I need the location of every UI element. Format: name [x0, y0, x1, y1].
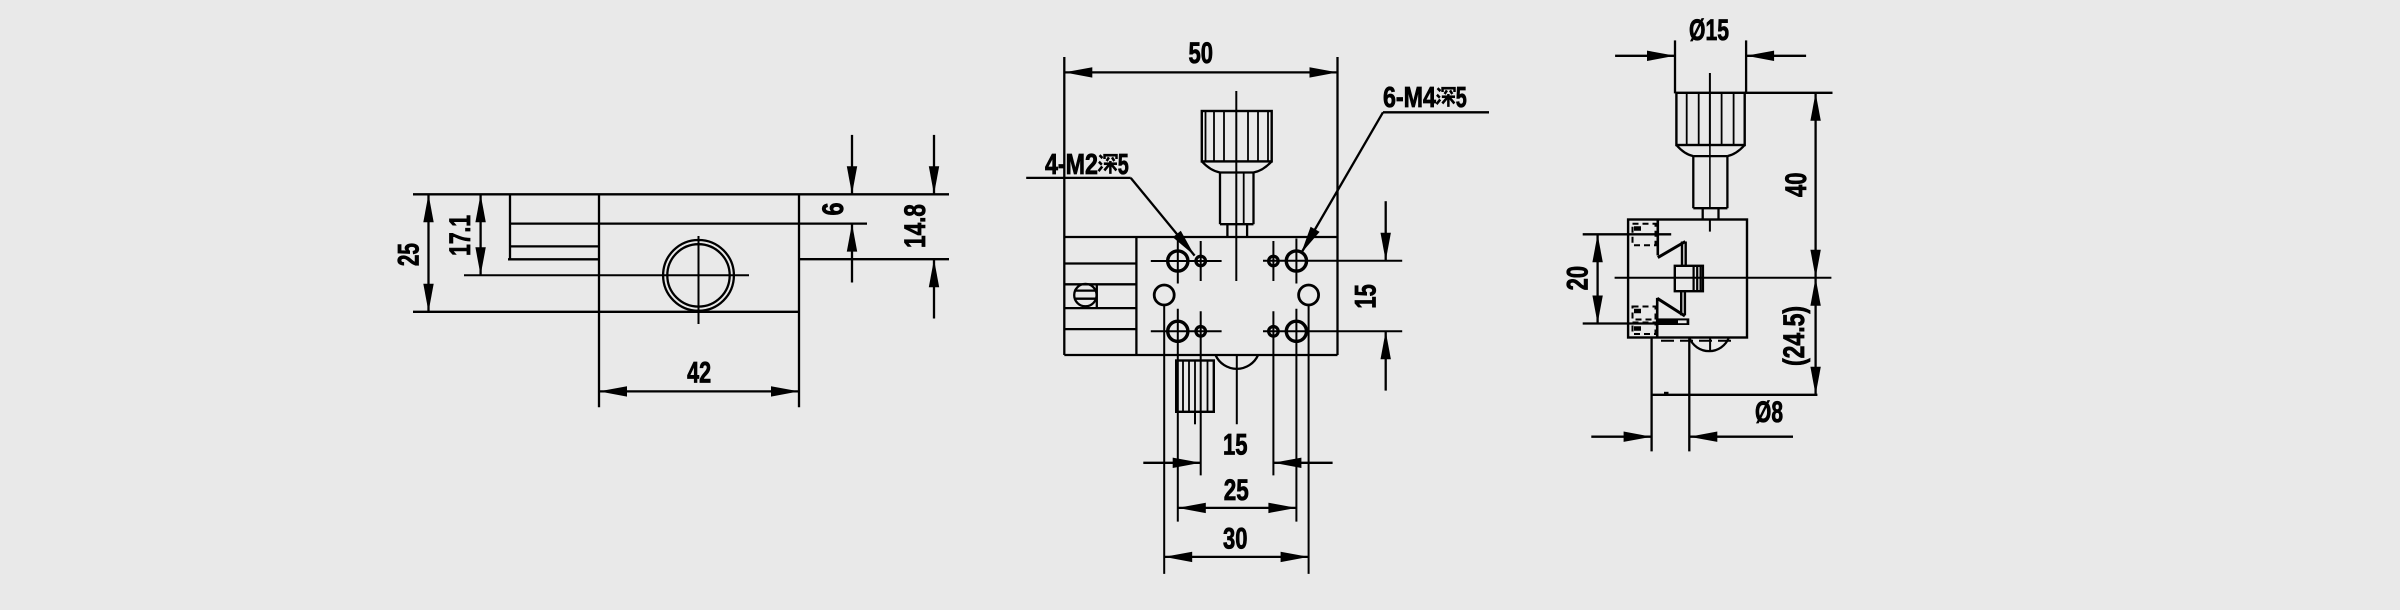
shaft diam8 right edge: [1688, 338, 1690, 452]
slot upper line (extends right as 6 extension): [510, 222, 867, 224]
screw housing vertical: [1096, 284, 1098, 308]
knob lower fillet left: [1202, 161, 1220, 172]
screw head circle: [1074, 284, 1096, 306]
dimension 42 left arrow: [599, 386, 627, 396]
stem bottom edge: [1220, 223, 1254, 225]
M4 hole top-left: [1168, 251, 1188, 271]
extension vertical 15-left: [1200, 311, 1202, 475]
knob circle horizontal centerline / 17.1 extension: [464, 274, 749, 276]
dashed hidden screw box bottom-left2: [1633, 323, 1656, 335]
dimension 15 right top arrow (outside, pointing down): [1385, 201, 1387, 261]
M2 hole top-right: [1269, 256, 1279, 266]
lower shaft right: [1717, 208, 1719, 219]
side knob centerline: [1194, 412, 1196, 425]
stem left edge: [1219, 173, 1221, 225]
svg-text:6-M4: 6-M4: [1383, 82, 1436, 114]
dimension 6 lower arrow (outside, pointing up): [851, 224, 853, 283]
label 4-M2 underline: [1026, 177, 1131, 179]
bottom arc under body: [1689, 338, 1729, 352]
upper spring diagonal: [1658, 242, 1686, 258]
dimension 20 top extension: [1583, 233, 1672, 235]
slot box left edge: [509, 194, 511, 259]
nut block inner verticals: [1692, 266, 1694, 291]
dimension diam8 right arrow (outside): [1689, 436, 1793, 438]
svg-text:50: 50: [1188, 37, 1213, 70]
lower spring vertical: [1656, 298, 1659, 338]
stem bottom edge: [1693, 207, 1727, 209]
left box line 3: [1064, 307, 1136, 309]
dimension 14.8 upper arrow (outside, pointing down): [933, 135, 935, 194]
label 4-M2 leader arrowhead: [1173, 231, 1195, 256]
bottom arc centerline: [1236, 355, 1238, 424]
hole row line top-right + 15 extension: [1263, 260, 1402, 262]
body step vertical left: [598, 194, 600, 407]
lower spring diagonal: [1657, 298, 1685, 316]
stem right edge: [1726, 156, 1728, 208]
hole row line bottom-left: [1151, 330, 1222, 332]
dimension 25 line: [427, 194, 429, 311]
stem top edge: [1220, 171, 1254, 173]
stem top edge: [1693, 155, 1727, 157]
lower shaft right: [1246, 224, 1248, 237]
dimension 30 bottom line: [1164, 556, 1308, 558]
body rect: [1628, 220, 1747, 338]
dimension 50 line: [1064, 71, 1337, 73]
side knob knurls: [1182, 361, 1184, 412]
dimension diam15 right arrow (outside): [1746, 55, 1806, 57]
svg-text:15: 15: [1350, 284, 1383, 309]
label 6-M4 shen glyph: [1437, 88, 1456, 107]
svg-text:4-M2: 4-M2: [1045, 149, 1098, 181]
knob knurl lines: [1686, 93, 1688, 145]
dimension diam8 left arrow (outside): [1591, 436, 1651, 438]
dashed hidden screw box top-left: [1633, 224, 1656, 246]
svg-text:30: 30: [1223, 522, 1248, 555]
M2 hole bottom-right: [1269, 327, 1279, 337]
svg-text:14.8: 14.8: [899, 204, 932, 248]
body bottom outline: [413, 311, 799, 313]
body top edge: [1064, 236, 1337, 238]
svg-text:20: 20: [1562, 266, 1595, 291]
left box line 4: [1064, 328, 1136, 330]
left box line 1: [1064, 262, 1136, 264]
dimension 14.8 lower arrow (outside, pointing up): [933, 259, 935, 318]
dimension 20 bottom extension: [1583, 322, 1658, 324]
dimension 42 line: [599, 390, 799, 392]
svg-text:25: 25: [1224, 474, 1249, 507]
M4 hole mid-right: [1299, 285, 1319, 305]
stem centerline: [1709, 145, 1711, 208]
upper spring vertical: [1657, 220, 1660, 256]
M2 hole top-left: [1196, 256, 1206, 266]
dimension 25 bottom line: [1178, 507, 1297, 509]
top knob knurled rect: [1202, 111, 1272, 161]
svg-text:Ø8: Ø8: [1755, 396, 1783, 429]
bottom arc under body: [1216, 355, 1259, 369]
shaft diam8 left edge: [1650, 338, 1652, 452]
knob lower fillet right: [1727, 145, 1744, 156]
dimension diam15 left arrow (outside): [1615, 55, 1675, 57]
label 6-M4 leader line: [1301, 112, 1383, 253]
knob shaft centerline: [1235, 91, 1237, 281]
body top outline: [413, 193, 949, 195]
M4 hole bottom-left: [1168, 321, 1188, 341]
14.8 bottom extension line: [799, 258, 949, 260]
M4 hole mid-left: [1154, 285, 1174, 305]
hole row line bottom-right + 15 extension: [1263, 330, 1402, 332]
knob knurled rect: [1676, 93, 1744, 145]
lower shaft left: [1702, 208, 1704, 219]
knob circle outer: [663, 240, 734, 311]
left box line 2: [1064, 283, 1136, 285]
bottom arc centerline tick: [1709, 338, 1711, 352]
svg-text:15: 15: [1223, 428, 1248, 461]
lower spring double vertical: [1680, 291, 1682, 315]
svg-text:42: 42: [687, 357, 711, 390]
svg-text:Ø15: Ø15: [1689, 14, 1729, 47]
svg-text:5: 5: [1118, 149, 1129, 181]
screw slot lines: [1074, 289, 1097, 291]
knob top extension for 40: [1745, 92, 1833, 94]
dimension 40 line: [1814, 93, 1816, 278]
dimension 15 bottom right arrow (outside): [1273, 462, 1332, 464]
extension vertical 15-right: [1272, 311, 1274, 475]
hole row line top-left: [1151, 260, 1222, 262]
svg-text:25: 25: [393, 243, 426, 266]
diam15 extension left: [1674, 40, 1676, 93]
svg-text:17.1: 17.1: [444, 215, 477, 256]
body bottom edge: [1064, 354, 1337, 356]
body right edge + 50 extension: [1336, 57, 1338, 355]
left box right edge: [1135, 237, 1137, 355]
svg-text:(24.5): (24.5): [1778, 306, 1811, 366]
svg-text:40: 40: [1780, 172, 1813, 197]
slot inner line: [510, 245, 599, 247]
lower shaft left: [1226, 224, 1228, 237]
dimension 15 bottom left arrow (outside): [1143, 462, 1200, 464]
svg-text:6: 6: [817, 203, 850, 216]
M4 hole bottom-right: [1286, 321, 1306, 341]
knob lower fillet left: [1676, 145, 1693, 156]
stem inner line: [1243, 173, 1245, 225]
label 6-M4 underline: [1383, 111, 1489, 113]
extension vertical 25-right: [1295, 309, 1297, 522]
shaft step line / 24.5 extension: [1652, 394, 1818, 396]
dimension 17.1 line: [479, 194, 481, 275]
shaft step tick: [1664, 392, 1669, 396]
dimension 42 right arrow: [771, 386, 799, 396]
side knob knurled rect: [1176, 361, 1214, 412]
label 4-M2 leader line: [1131, 178, 1195, 256]
slot bottom line: [508, 258, 599, 260]
dimension 6 upper arrow (outside, pointing down): [851, 135, 853, 194]
stem right edge: [1252, 173, 1254, 225]
knob knurl lines: [1205, 111, 1207, 161]
upper spring double vertical: [1681, 242, 1683, 267]
knob lower fillet right: [1254, 161, 1272, 172]
dimension 24.5 line: [1814, 278, 1816, 395]
knob circle inner: [667, 244, 729, 306]
body right edge vertical: [798, 194, 800, 407]
dimension 15 right bottom arrow (outside, pointing up): [1385, 331, 1387, 390]
main horizontal centerline: [1615, 277, 1832, 279]
label 4-M2 shen glyph: [1099, 155, 1118, 174]
dashed hidden screw box bottom-left: [1633, 307, 1656, 320]
shaft centerline tick into body: [1709, 220, 1711, 232]
dimension 25 bottom arrow: [423, 284, 433, 312]
extension vertical 30-left: [1163, 306, 1165, 574]
dimension 25 top arrow: [423, 194, 433, 222]
knob circle vertical centerline: [698, 236, 700, 324]
extension vertical 30-right: [1308, 306, 1310, 574]
label 6-M4 leader arrowhead: [1301, 227, 1320, 254]
svg-text:5: 5: [1456, 82, 1467, 114]
nut block outer rect: [1675, 266, 1703, 291]
dimension 17.1 top arrow: [475, 194, 485, 222]
body left edge + 50 extension: [1063, 57, 1065, 355]
extension vertical 25-left: [1177, 309, 1179, 522]
dimension 17.1 bottom arrow: [475, 247, 485, 275]
stem left edge: [1692, 156, 1694, 208]
lower filled bar: [1658, 318, 1689, 325]
dimension 20 line: [1596, 234, 1598, 323]
knob centerline above: [1709, 73, 1711, 93]
diam15 extension right: [1745, 40, 1747, 93]
body bottom dashed hidden line: [1661, 340, 1736, 342]
lower bar white slot: [1678, 320, 1687, 323]
M2 hole bottom-left: [1196, 327, 1206, 337]
M4 hole top-right: [1286, 251, 1306, 271]
